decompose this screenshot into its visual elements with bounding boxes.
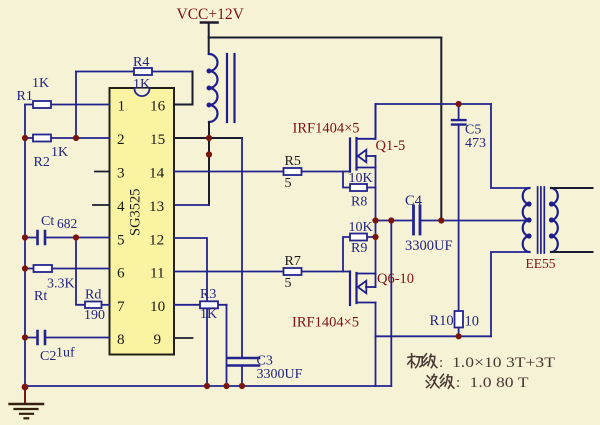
svg-text::: :	[439, 355, 443, 371]
svg-text:14: 14	[149, 164, 165, 181]
junction node dots	[22, 101, 462, 391]
inductor L1 core bars	[227, 54, 235, 122]
svg-text:10K: 10K	[349, 171, 373, 186]
svg-text:R7: R7	[285, 254, 301, 269]
capacitor C5	[452, 104, 486, 311]
resistor R2	[25, 135, 110, 171]
wire R3 right down to ground	[226, 305, 228, 386]
svg-text:4: 4	[117, 198, 125, 215]
capacitor C4	[405, 193, 453, 254]
wire pin 9 stub	[174, 337, 193, 339]
svg-text:EE55: EE55	[526, 256, 556, 271]
wire left rail	[24, 105, 26, 388]
resistor R4	[76, 55, 193, 92]
svg-text:9: 9	[154, 331, 162, 348]
wire pin 14 row to gate of Q1-5	[174, 171, 350, 173]
label primary turns note	[408, 354, 437, 368]
svg-text:1K: 1K	[32, 76, 49, 91]
svg-text:5: 5	[117, 231, 125, 248]
resistor R9	[343, 220, 376, 272]
svg-text:R9: R9	[351, 241, 367, 256]
transistor Q1-5 MOSFET	[350, 138, 376, 172]
svg-text:6: 6	[117, 264, 125, 281]
wire drain rail corner to primary top	[491, 104, 530, 188]
svg-text:SG3525: SG3525	[128, 188, 144, 236]
wire pin 12 to ground	[174, 238, 207, 386]
svg-text:R10: R10	[430, 313, 454, 329]
svg-text:1: 1	[118, 97, 126, 114]
resistor Rt	[25, 265, 110, 304]
svg-text:1.0 80 T: 1.0 80 T	[470, 375, 529, 391]
svg-text:8: 8	[117, 331, 125, 348]
svg-text:R8: R8	[351, 195, 367, 210]
transformer T1 secondary	[550, 188, 558, 252]
IC U1 SG3525 body	[110, 88, 175, 355]
svg-text:3300UF: 3300UF	[405, 238, 453, 254]
svg-text:3: 3	[117, 164, 125, 181]
resistor R5	[284, 154, 302, 191]
resistor R7	[284, 254, 302, 291]
svg-text:R5: R5	[285, 154, 301, 169]
capacitor Ct	[25, 214, 110, 244]
svg-text:1K: 1K	[51, 145, 68, 160]
svg-text:IRF1404×5: IRF1404×5	[293, 121, 360, 137]
svg-text:10: 10	[465, 314, 480, 330]
svg-text:15: 15	[150, 131, 165, 148]
wire ground bottom rail	[25, 385, 391, 387]
svg-text:190: 190	[84, 308, 105, 323]
resistor R8	[343, 171, 376, 210]
wire VCC top horizontal	[209, 37, 442, 39]
inductor L1 winding	[208, 54, 218, 122]
svg-text:Rt: Rt	[34, 289, 47, 304]
svg-text:682: 682	[57, 216, 77, 231]
svg-text:2: 2	[117, 131, 125, 148]
svg-text:10: 10	[150, 298, 166, 315]
capacitor C2	[25, 331, 110, 364]
wire pin 15 horizontal	[174, 137, 242, 139]
svg-text:1K: 1K	[133, 77, 150, 92]
transformer T1 core	[538, 187, 545, 253]
svg-text:3300UF: 3300UF	[257, 367, 303, 382]
svg-text:12: 12	[149, 231, 164, 248]
wire inductor bottom down to pin13 corner	[208, 122, 210, 205]
IC U1 pin numbers	[117, 97, 166, 347]
svg-text:5: 5	[285, 276, 292, 291]
wire secondary top lead	[551, 187, 593, 189]
wire source return row	[376, 335, 492, 337]
svg-text:Ct: Ct	[41, 214, 54, 229]
svg-text:C4: C4	[405, 193, 423, 209]
resistor Rd	[84, 288, 110, 324]
svg-text:IRF1404×5: IRF1404×5	[292, 315, 359, 331]
transistor Q6-10 MOSFET	[350, 272, 376, 306]
wire vertical pin15 net down to C3	[241, 138, 243, 357]
wire Q6-10 bottom down to ground row	[375, 303, 377, 387]
transformer T1 EE55 primary	[523, 188, 531, 252]
wire C4 row / center tap	[376, 220, 530, 222]
svg-text:473: 473	[465, 136, 486, 151]
wire pin 4 stub	[93, 204, 110, 206]
svg-text:Q1-5: Q1-5	[376, 138, 406, 154]
svg-text:R2: R2	[34, 155, 50, 170]
wire Ct junction down to Rd	[76, 238, 85, 305]
wire half-bridge node down to ground	[390, 221, 392, 387]
svg-text:Rd: Rd	[85, 288, 101, 303]
svg-text:VCC+12V: VCC+12V	[177, 6, 245, 23]
svg-text:13: 13	[149, 198, 164, 215]
svg-text:C2: C2	[40, 349, 56, 364]
resistor R3	[174, 287, 227, 322]
svg-text:5: 5	[285, 176, 292, 191]
wire primary bottom lead	[491, 252, 530, 336]
svg-text:11: 11	[150, 264, 165, 281]
label secondary turns note	[426, 374, 454, 388]
wire half-bridge vertical	[375, 168, 377, 274]
svg-text:3.3K: 3.3K	[47, 277, 75, 292]
wire pin 11 row to gate of Q6-10	[174, 271, 350, 273]
wire pin16 loop	[174, 72, 193, 105]
svg-text:10K: 10K	[349, 220, 373, 235]
capacitor C3	[228, 354, 303, 387]
svg-text:Q6-10: Q6-10	[377, 271, 414, 287]
svg-text:16: 16	[150, 97, 166, 114]
svg-text:R1: R1	[17, 89, 33, 104]
wire Q1-5 drain up to rail	[375, 104, 377, 139]
svg-text::: :	[456, 375, 460, 391]
wire VCC vertical to inductor	[208, 23, 210, 55]
svg-text:1.0×10 3T+3T: 1.0×10 3T+3T	[452, 355, 555, 371]
wire secondary bottom lead	[551, 251, 593, 253]
resistor R1	[17, 76, 110, 108]
svg-text:7: 7	[117, 298, 125, 315]
svg-text:R4: R4	[133, 55, 149, 70]
power VCC+12V terminal	[177, 6, 245, 23]
wire drain rail top	[376, 103, 492, 105]
wire pin 3 stub	[95, 171, 110, 173]
svg-text:R3: R3	[200, 287, 216, 302]
ground symbol	[10, 387, 44, 418]
wire VCC right vertical down to C4 row	[440, 38, 442, 221]
resistor R10	[430, 311, 480, 336]
wire R4 left vertical to pin2 net	[75, 72, 77, 139]
svg-text:1uf: 1uf	[56, 346, 75, 361]
svg-text:1K: 1K	[200, 307, 217, 322]
wire pin 13 horizontal	[174, 204, 209, 206]
